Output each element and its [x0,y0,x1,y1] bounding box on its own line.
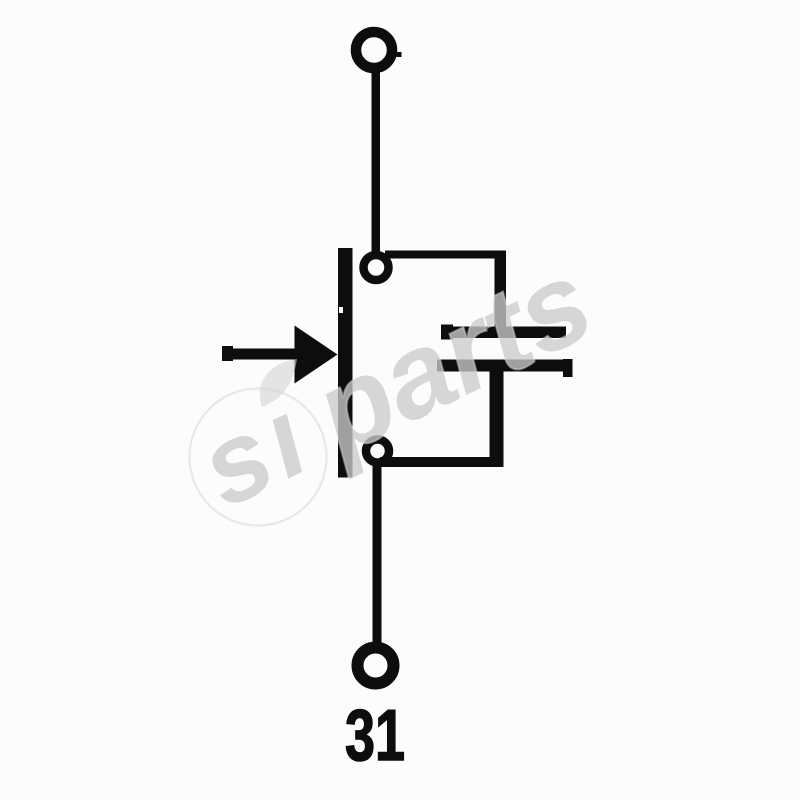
watermark text [180,235,611,536]
arrow emitter [295,326,338,384]
wire top horizontal [385,251,506,259]
terminal T2 (bottom pin circle) [358,648,394,684]
capacitor plate lower right nub [563,359,573,377]
wire arrow lead [222,349,300,360]
node bottom junction circle [366,440,389,463]
wire top lead [372,71,381,255]
wire bottom horizontal [380,457,504,467]
bar (vertical base bar) [338,248,353,478]
terminal T1 (top pin circle) [356,32,392,68]
accent leaf over i [260,359,297,407]
wire bottom lead [373,460,382,645]
wire right edge upper [495,251,507,339]
capacitor plate upper left end blob [441,325,453,340]
svg-text:31: 31 [345,696,405,776]
node top junction circle [364,255,389,280]
capacitor plate upper [441,327,566,339]
scan artifact tick right of terminal T1 [397,52,402,57]
scan artifact white notch in bar [339,307,343,313]
wire right edge lower [490,360,504,467]
watermark circle [190,389,327,526]
wire arrow lead left end [222,346,233,361]
capacitor plate lower [437,360,572,372]
